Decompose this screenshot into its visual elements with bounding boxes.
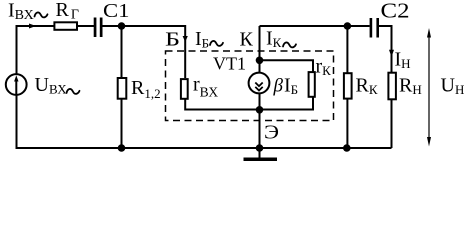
wire: R_H bottom lead xyxy=(391,99,393,148)
svg-text:β: β xyxy=(273,76,284,97)
wire: R12 bottom lead xyxy=(121,99,123,148)
svg-text:VT1: VT1 xyxy=(213,54,246,74)
wire: C1 to base corner, down to r_bx xyxy=(103,26,186,78)
svg-text:Э: Э xyxy=(264,122,279,144)
current arrow I_B on base wire xyxy=(183,36,188,42)
source U_BX circle xyxy=(6,74,27,95)
svg-text:Б: Б xyxy=(165,29,180,51)
node: junction at R_K top xyxy=(344,22,352,30)
wire: inner top rail to r_k xyxy=(260,60,314,72)
node: bottom rail dot under R_K xyxy=(343,144,351,152)
wire: emitter vertical to bottom rail xyxy=(259,110,261,149)
svg-text:К: К xyxy=(240,29,254,51)
current arrow I_BX on top wire xyxy=(29,24,36,29)
arrow inside source xyxy=(15,80,17,95)
ground xyxy=(259,148,261,158)
wire: R_K top lead xyxy=(346,26,348,73)
double chevron inside xyxy=(255,83,262,87)
resistor RG xyxy=(54,22,77,30)
wire: left vertical from top wire to source circle xyxy=(16,26,18,75)
controlled source circle beta*I_B xyxy=(249,73,270,94)
wire: collector vertical from top wire to inner node xyxy=(259,26,261,60)
resistor R1,2 xyxy=(118,78,127,99)
wire: controlled source to emitter node xyxy=(259,93,261,110)
wire: source bottom to bottom rail xyxy=(16,95,18,149)
wire: R_K bottom lead xyxy=(346,99,348,148)
resistor r_bx xyxy=(181,79,188,99)
voltage arrow U_H (double headed) xyxy=(428,36,430,139)
wire: top rail collector to C2 xyxy=(260,25,370,27)
wire: top-left horizontal from corner to RG xyxy=(16,25,54,27)
capacitor C2 xyxy=(370,18,373,38)
node: bottom rail dot under R12 xyxy=(118,144,126,152)
wire: r_bx bottom to inner emitter rail xyxy=(185,99,259,110)
wire: RG to C1 xyxy=(78,25,94,27)
wire: R12 top lead xyxy=(121,26,123,78)
node: collector inner junction xyxy=(256,57,264,65)
resistor R_H xyxy=(388,73,396,100)
svg-text:C2: C2 xyxy=(381,0,410,22)
svg-text:C1: C1 xyxy=(103,0,130,22)
wire: C2 to R_H xyxy=(379,26,392,73)
resistor R_K xyxy=(344,73,352,98)
current arrow I_H xyxy=(389,50,394,57)
resistor r_k xyxy=(309,72,315,97)
capacitor C1 xyxy=(94,18,97,38)
dashed transistor box VT1 xyxy=(166,51,334,121)
node: junction dot top of R12 xyxy=(118,22,126,30)
node: emitter junction xyxy=(256,106,264,114)
wire: node to controlled source xyxy=(259,60,261,73)
wire: r_k bottom to inner emitter rail xyxy=(260,97,314,110)
node: bottom rail dot at emitter xyxy=(256,144,264,152)
wire: bottom rail xyxy=(16,147,392,149)
